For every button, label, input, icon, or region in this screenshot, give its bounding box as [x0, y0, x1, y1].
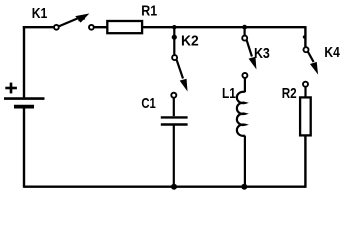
node C1 bottom junction [171, 184, 177, 190]
svg-text:R1: R1 [141, 3, 157, 20]
node K2 top junction [172, 25, 176, 29]
resistor R2 [300, 97, 311, 135]
svg-text:C1: C1 [141, 95, 155, 112]
inductor L1 [237, 92, 245, 136]
switch K3 [242, 36, 256, 68]
wire C1 to bottom wire [173, 125, 175, 187]
node R2 top contact [303, 82, 308, 87]
wire R2 contact to box [304, 87, 306, 97]
wire L1 to bottom wire [244, 136, 246, 187]
node K3 top junction [242, 25, 247, 30]
svg-text:K1: K1 [32, 5, 48, 22]
node L1 top contact [242, 73, 247, 78]
node C1 top contact [171, 93, 176, 98]
wire left vertical bottom (battery to bottom wire) [23, 107, 25, 188]
switch K1 [54, 14, 94, 30]
battery GB1 plus sign [5, 83, 17, 94]
wire top segment R1 to K4 corner [143, 26, 306, 28]
node L1 bottom junction [241, 184, 247, 190]
wire top right corner down to K4 [304, 26, 306, 47]
battery GB1 [4, 99, 45, 107]
node K2 terminal dot [172, 35, 177, 40]
svg-text:R2: R2 [282, 85, 297, 102]
wire top segment battery to K1 [23, 26, 54, 28]
switch K4 [304, 47, 318, 73]
wire bottom [24, 185, 305, 187]
svg-text:K4: K4 [324, 44, 340, 61]
svg-text:K3: K3 [254, 45, 270, 62]
wire left vertical top (battery to top wire) [23, 26, 25, 97]
node K4 terminal tick [303, 35, 306, 38]
svg-text:L1: L1 [222, 85, 236, 102]
wire K1 to R1 [94, 26, 107, 28]
capacitor C1 [161, 117, 188, 124]
resistor R1 [107, 21, 142, 33]
wire K2 stub from top wire [173, 27, 175, 55]
wire C1 contact to plate [173, 98, 175, 116]
wire R2 to bottom wire [304, 135, 306, 187]
switch K2 [172, 55, 187, 90]
wire L1 contact to coil [244, 78, 246, 92]
svg-text:K2: K2 [181, 32, 199, 49]
wire K3 stub from top wire [244, 27, 246, 35]
